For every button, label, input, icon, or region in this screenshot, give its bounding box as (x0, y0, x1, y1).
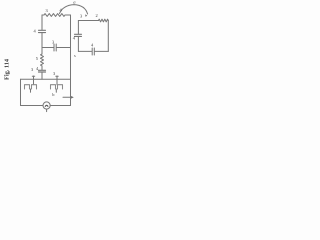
wire: right rail of left circuit (full height) (70, 15, 72, 106)
arrowhead of bottom-right arrow (71, 96, 74, 99)
wire: left rail below zigzag (41, 66, 43, 70)
tick atop right lead (56, 75, 58, 77)
capacitor C2 (thick bar pair on left rail) (39, 70, 46, 72)
capacitor C4 (left rail of right loop, horizontal plates) (75, 34, 82, 36)
svg-text:Fig. 114: Fig. 114 (4, 58, 11, 80)
wire: left rail mid (41, 33, 43, 54)
phone P1 (left unit, two coil boxes) (25, 85, 37, 89)
wire: stub below generator (46, 109, 48, 112)
wire: left rail of right loop upper (77, 21, 79, 34)
wire: lead of left phone unit through bus (33, 76, 35, 85)
capacitor C3 (series cap in mid wire, vertical plates) (54, 44, 56, 51)
capacitor C5 (series cap in right loop bottom, vertical plates) (92, 48, 94, 55)
svg-text:s: s (74, 53, 76, 58)
wire: lead of right phone unit through bus (56, 76, 58, 85)
wire: bottom bus right of source (50, 105, 70, 107)
wire: left loop top segment (42, 14, 44, 16)
wire: bus (top of bottom box) (21, 78, 71, 80)
phone P2 (right unit, two coil boxes) (51, 85, 63, 89)
wire: left rail of right loop lower (77, 36, 79, 51)
wire: tick below right unit (55, 89, 57, 92)
wire: mid horizontal of left circuit (42, 47, 71, 49)
svg-text:2: 2 (96, 13, 98, 18)
wire: left rail upper (41, 15, 43, 30)
wire: right loop bottom wire (78, 50, 108, 52)
right loop top wire (78, 20, 98, 22)
wire: top right to corner (65, 14, 71, 16)
arrowhead of coupling arc (85, 14, 87, 16)
wire: left rail to bus (41, 72, 43, 79)
coupling arc a (60, 5, 88, 14)
arrow into right rail of bottom box (63, 96, 72, 98)
generator G inner mark (45, 104, 48, 107)
wire: right rail of right loop (107, 21, 109, 52)
resistor R3 (right loop top zigzag) (99, 19, 109, 22)
capacitor C1 (left rail, horizontal plates) (39, 30, 46, 32)
generator G (circle source in bottom bus) (43, 102, 50, 109)
tick atop left lead (32, 75, 34, 77)
resistor R1 (left loop top zigzag) (44, 14, 65, 17)
wire: bottom bus left of source (21, 105, 44, 107)
wire: tick below left unit (30, 89, 32, 92)
resistor R2 (vertical zigzag on left rail) (41, 54, 44, 66)
wire: left rail of bottom box (20, 79, 22, 105)
